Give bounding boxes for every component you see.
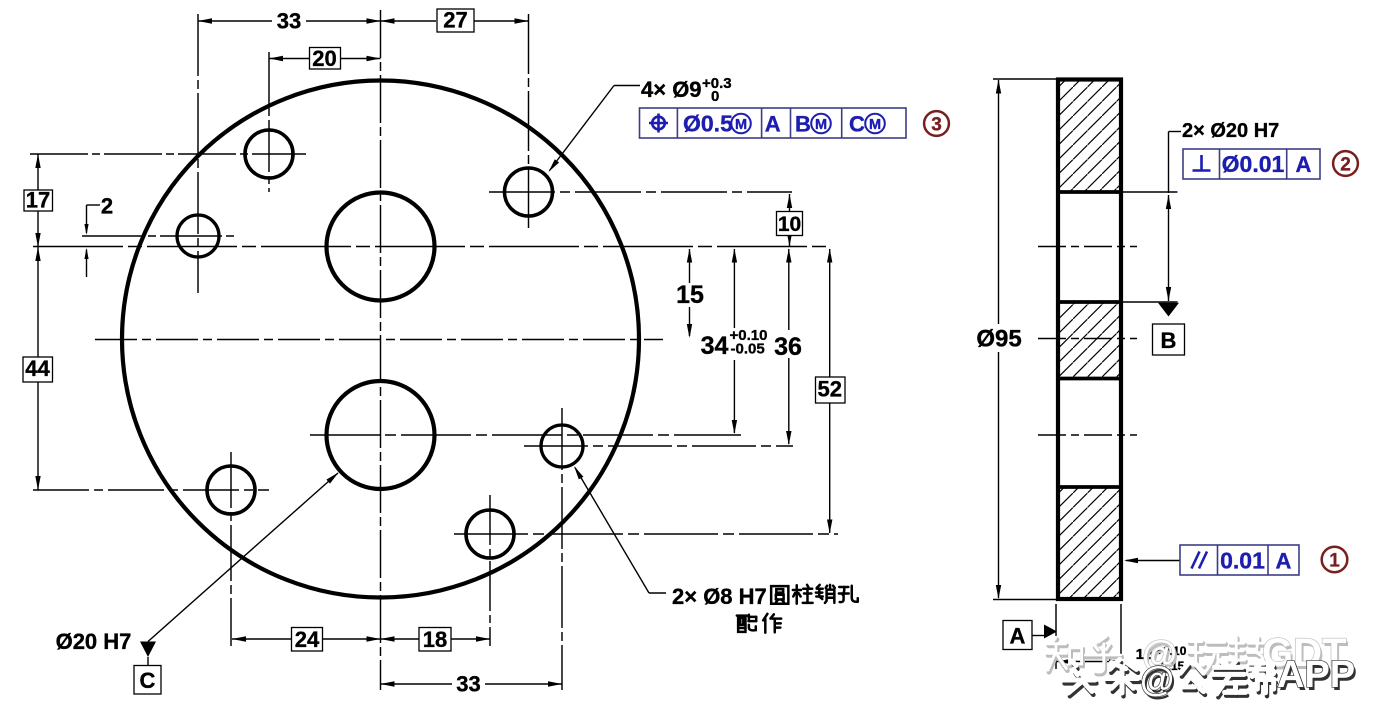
extension lines below section: [1055, 604, 1057, 669]
svg-text:@: @: [1140, 660, 1174, 699]
svg-text:B: B: [1161, 328, 1177, 353]
svg-text:2× Ø20 H7: 2× Ø20 H7: [1182, 120, 1279, 142]
datum B symbol: [1153, 303, 1185, 355]
balloon 2: [1333, 151, 1358, 176]
extension line x528.5: [528, 14, 530, 232]
svg-text:A: A: [765, 112, 781, 137]
svg-text:C: C: [849, 112, 865, 137]
dim 34 +0.10/-0.05: [701, 249, 768, 435]
dim 12 +0.10/-0.15: [1056, 644, 1187, 673]
flange outer circle Ø95: [122, 81, 639, 598]
extension line y302 right: [1123, 301, 1178, 303]
dim Ø95: [976, 79, 1056, 600]
svg-text:M: M: [735, 117, 747, 133]
svg-text:A: A: [1276, 549, 1292, 574]
svg-text:33: 33: [456, 672, 480, 697]
extension line y192 right: [1123, 191, 1178, 193]
hole Ø8 H7 left: [177, 215, 219, 257]
hole edge line y192: [1056, 190, 1123, 194]
svg-text:27: 27: [443, 8, 467, 33]
svg-text:0.01: 0.01: [1220, 548, 1265, 574]
centerline y490 bottom-left hole row: [33, 489, 269, 491]
svg-text:2× Ø8 H7: 2× Ø8 H7: [672, 584, 767, 609]
leader 2x Ø8 pin holes: [574, 466, 666, 593]
hole Ø20 H7 top: [327, 193, 435, 301]
hole edge line y487: [1056, 485, 1123, 489]
vertical centerline: [380, 10, 382, 690]
side view centerline middle: [1038, 338, 1137, 340]
dim 2 left: [84, 194, 113, 278]
centerline y246.5 top Ø20 hole row: [33, 246, 831, 248]
leader parallelism: [1124, 558, 1180, 563]
extension line x562: [561, 408, 563, 690]
dim 33 bottom: [381, 672, 563, 697]
svg-text:2: 2: [1340, 155, 1351, 176]
dim 18 (basic): [381, 627, 491, 652]
svg-text:1: 1: [1329, 551, 1340, 572]
extension line x231: [230, 452, 232, 646]
svg-text:Ø95: Ø95: [976, 326, 1021, 353]
balloon 3: [924, 111, 949, 136]
hole edge line y302: [1056, 300, 1123, 304]
svg-text:2: 2: [101, 194, 113, 219]
svg-text:APP: APP: [1277, 654, 1355, 696]
feature control frame position Ø0.5(M) A B(M) C(M): [640, 108, 907, 138]
label 4x Ø9 +0.3/0: [641, 75, 732, 105]
extension line x490: [489, 495, 491, 646]
svg-text:33: 33: [277, 9, 301, 34]
section hatch band top: [1060, 82, 1119, 193]
dim 10 (basic): [777, 194, 803, 247]
svg-text:C: C: [140, 668, 156, 693]
dim 52 (basic): [816, 249, 846, 534]
extension line x198: [197, 14, 199, 293]
label 2x Ø20 H7: [1169, 120, 1280, 193]
horizontal centerline: [95, 339, 663, 341]
centerline y154 top-middle hole: [30, 153, 306, 155]
svg-text:10: 10: [778, 213, 801, 236]
datum A symbol: [1003, 621, 1057, 650]
hole Ø9 bottom-left: [207, 466, 255, 514]
centerline y446 right Ø8 hole row: [524, 445, 793, 447]
watermark zhihu line: [1047, 631, 1348, 678]
svg-text:0: 0: [711, 88, 719, 105]
section hatch band bottom: [1060, 489, 1119, 598]
leader 4x Ø9 holes: [549, 86, 641, 173]
centerline y534 bottom-middle hole row: [454, 533, 838, 535]
svg-text:-0.05: -0.05: [731, 341, 765, 358]
svg-text:3: 3: [931, 115, 942, 136]
svg-text:M: M: [869, 117, 881, 133]
hole Ø20 H7 bottom: [327, 381, 435, 489]
svg-text:Ø0.01: Ø0.01: [1222, 151, 1285, 177]
svg-text:44: 44: [25, 356, 50, 381]
watermark toutiao line: [1063, 654, 1357, 702]
centerline y192 top-right hole row: [489, 191, 792, 193]
balloon 1: [1322, 547, 1348, 573]
svg-text:52: 52: [817, 377, 841, 402]
svg-text:15: 15: [676, 281, 704, 309]
dim 27 top (basic): [381, 8, 529, 33]
dim 24 (basic): [232, 627, 381, 652]
section hatch band middle: [1060, 304, 1119, 379]
hole Ø9 top-middle: [245, 130, 293, 178]
svg-text:Ø20 H7: Ø20 H7: [56, 629, 132, 654]
extension line x269: [268, 52, 270, 192]
svg-text:24: 24: [295, 627, 320, 652]
feature control frame perpendicularity Ø0.01 A: [1183, 149, 1320, 179]
centerline y435 bottom Ø20 hole row: [310, 434, 741, 436]
svg-text:M: M: [815, 117, 827, 133]
svg-text:A: A: [1010, 624, 1026, 649]
dim 17 (basic) left: [24, 154, 53, 247]
hole Ø8 H7 right: [541, 425, 583, 467]
svg-text:B: B: [795, 112, 811, 137]
dim 36: [774, 249, 802, 446]
dim 15: [676, 249, 704, 339]
hole edge line y378.5: [1056, 377, 1123, 381]
svg-text:20: 20: [312, 46, 336, 71]
feature control frame parallelism 0.01 A: [1180, 545, 1299, 575]
datum B dimension line: [1166, 195, 1171, 301]
dim 44 (basic) left: [23, 247, 53, 490]
svg-text:A: A: [1296, 152, 1312, 177]
svg-text:36: 36: [774, 333, 802, 361]
svg-text:34: 34: [701, 332, 729, 360]
side view centerline top hole: [1038, 246, 1137, 248]
datum C symbol with Ø20 H7 label: [56, 472, 339, 694]
centerline y236 left hole: [82, 235, 236, 237]
label 2x Ø8 H7 pin holes text: [672, 584, 858, 633]
hole Ø9 bottom-middle: [466, 510, 514, 558]
dim 33 top: [198, 9, 381, 34]
svg-text:4× Ø9: 4× Ø9: [641, 77, 702, 102]
dim 20 (basic): [269, 46, 381, 71]
svg-text:17: 17: [26, 188, 50, 213]
hole Ø9 top-right: [505, 168, 553, 216]
side view section outline: [1058, 80, 1121, 600]
svg-text:18: 18: [423, 627, 447, 652]
svg-text:Ø0.5: Ø0.5: [683, 111, 733, 137]
side view centerline bottom hole: [1038, 434, 1137, 436]
